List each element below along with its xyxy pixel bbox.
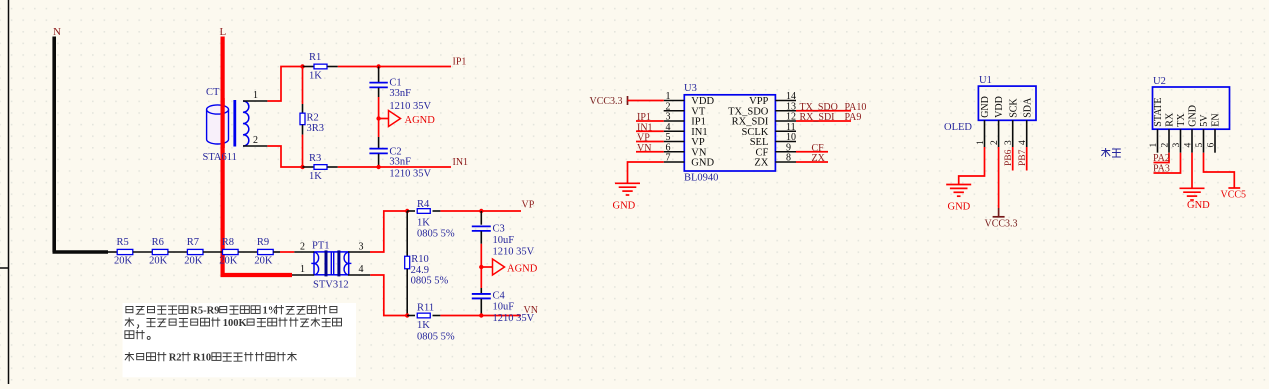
svg-text:5V: 5V: [1199, 114, 1210, 127]
svg-text:20K: 20K: [114, 256, 133, 267]
wire N to R5: [108, 251, 117, 253]
svg-text:TX: TX: [1176, 113, 1187, 127]
PT1 pin 2: [294, 242, 314, 253]
U2 pin 6: [1207, 129, 1217, 153]
resistor R6 20K: [149, 237, 168, 267]
U3 pin 10: [775, 132, 796, 143]
svg-text:R5: R5: [117, 237, 129, 248]
svg-text:SCK: SCK: [1008, 98, 1019, 118]
U3 pin 3: [664, 112, 685, 123]
note line 4: [125, 352, 297, 364]
label lanya (bluetooth): [1101, 148, 1120, 157]
transformer PT1 STV312: [311, 241, 351, 291]
U2 pin 4: [1184, 129, 1194, 153]
resistor R7 20K: [184, 237, 203, 267]
svg-text:ZX: ZX: [812, 153, 826, 164]
wire U2 pin5 to VCC5: [1204, 153, 1235, 188]
ground symbol GND (U3): [613, 183, 641, 211]
svg-text:1: 1: [253, 90, 258, 101]
PT1 pin 1: [292, 264, 314, 275]
svg-text:20K: 20K: [254, 256, 273, 267]
svg-text:3R3: 3R3: [307, 123, 325, 134]
resistor R4 1K: [407, 199, 455, 240]
IC U3 BL0940: [684, 83, 775, 183]
transformer CT STA611: [203, 87, 249, 163]
power port VCC5: [1221, 188, 1247, 201]
svg-text:GND: GND: [1187, 200, 1210, 211]
svg-text:AGND: AGND: [405, 115, 436, 126]
U3 pin 2: [664, 101, 685, 112]
svg-text:C3: C3: [493, 223, 505, 234]
svg-text:C4: C4: [493, 290, 506, 301]
wire R6 to R7: [168, 251, 188, 253]
wire R11 to VN: [440, 315, 521, 317]
svg-text:GND: GND: [980, 96, 991, 118]
wire C3 to AGND2: [480, 244, 482, 267]
svg-text:R3: R3: [309, 153, 321, 164]
capacitor C4 10uF: [472, 288, 535, 324]
svg-text:VCC5: VCC5: [1221, 190, 1247, 201]
svg-text:VP: VP: [522, 199, 535, 210]
svg-text:1: 1: [300, 264, 305, 275]
U3 pin 5: [664, 132, 685, 143]
svg-text:R8: R8: [222, 237, 234, 248]
svg-text:10uF: 10uF: [493, 235, 515, 246]
wire L over CT: [221, 98, 225, 148]
capacitor C1 33nF: [369, 67, 431, 112]
svg-text:R11: R11: [417, 303, 434, 314]
svg-text:PB6: PB6: [1004, 149, 1014, 166]
U3 pin 14: [775, 91, 796, 102]
PT1 pin 4: [348, 264, 370, 275]
svg-text:R2: R2: [169, 353, 182, 364]
svg-text:GND: GND: [1188, 105, 1199, 127]
junction node C4 bottom: [479, 313, 483, 317]
svg-text:BL0940: BL0940: [684, 172, 718, 183]
wire U3 pin13 TX_SDO: [796, 110, 851, 112]
U3 pin 4: [664, 122, 685, 133]
svg-text:0805 5%: 0805 5%: [417, 229, 455, 240]
wire R7 to R8: [203, 251, 223, 253]
CT pin 2: [243, 135, 267, 146]
svg-text:0805 5%: 0805 5%: [411, 276, 449, 287]
resistor R2 3R3: [300, 67, 324, 168]
svg-text:20K: 20K: [184, 256, 203, 267]
svg-text:ZX: ZX: [754, 158, 768, 169]
wire R8 to R9: [238, 251, 258, 253]
svg-text:VDD: VDD: [994, 96, 1005, 118]
svg-text:100K: 100K: [223, 318, 248, 329]
svg-text:C1: C1: [389, 78, 401, 89]
svg-text:1K: 1K: [417, 218, 430, 229]
junction node C1 top: [376, 64, 380, 68]
resistor R10 24.9: [405, 211, 449, 316]
wire U1 pin2 to VCC3.3: [998, 147, 1000, 208]
power port VCC3.3 (U3): [590, 96, 628, 107]
svg-text:GND: GND: [613, 200, 636, 211]
power symbol AGND2: [493, 259, 538, 275]
wire R4 to VP: [440, 210, 521, 212]
resistor R11 1K: [407, 303, 455, 343]
svg-text:20K: 20K: [149, 256, 168, 267]
svg-text:STV312: STV312: [313, 280, 349, 291]
svg-text:U1: U1: [979, 75, 992, 86]
wire R9 to PT1 pin2: [273, 251, 294, 253]
U3 pin 6: [664, 142, 685, 153]
wire AGND node to C2: [378, 119, 380, 138]
junction node AGND2: [479, 265, 483, 269]
wire U2 pin2 PA2: [1154, 153, 1170, 163]
U1 pin 4: [1018, 120, 1028, 147]
svg-text:EN: EN: [1211, 113, 1222, 126]
U1 pin 3: [1004, 120, 1014, 147]
svg-text:SDA: SDA: [1022, 97, 1033, 118]
wire U3 pin9 CF: [796, 151, 828, 153]
svg-text:PB7: PB7: [1018, 149, 1028, 166]
svg-text:PA3: PA3: [1153, 164, 1170, 175]
svg-text:0805 5%: 0805 5%: [417, 331, 455, 342]
note line 2: [125, 318, 342, 330]
svg-text:U3: U3: [684, 83, 697, 94]
wire AGND2 to C4: [480, 267, 482, 288]
wire VCC3.3 to U3 pin1: [628, 100, 664, 102]
ground symbol GND (U2): [1180, 188, 1211, 211]
svg-text:RX: RX: [1165, 112, 1176, 127]
svg-text:R5-R9: R5-R9: [190, 306, 219, 317]
wire U1 pin3 PB6: [1012, 147, 1014, 171]
svg-text:R1: R1: [309, 52, 321, 63]
capacitor C2 33nF: [369, 137, 431, 179]
svg-text:1K: 1K: [417, 320, 430, 331]
U3 pin 9: [775, 142, 796, 153]
wire U1 pin4 PB7: [1026, 147, 1028, 171]
wire CT pin2 to R3 node: [267, 146, 302, 167]
U3 pin 12: [775, 112, 796, 123]
U1 pin 1: [976, 120, 986, 147]
svg-text:GND: GND: [948, 202, 971, 213]
wire U2 pin3 PA3: [1154, 153, 1181, 173]
svg-text:4: 4: [359, 264, 364, 275]
resistor R8 20K: [219, 237, 238, 267]
svg-text:R10: R10: [411, 254, 429, 265]
U3 pin 13: [775, 101, 796, 112]
svg-text:R7: R7: [187, 237, 199, 248]
wire R1 to IP1: [338, 66, 451, 68]
net label VN (U3): [636, 143, 664, 154]
svg-text:R2: R2: [307, 113, 319, 124]
svg-text:OLED: OLED: [944, 122, 972, 133]
svg-text:1K: 1K: [309, 171, 322, 182]
junction node R3-R2: [300, 165, 304, 169]
junction node AGND1: [376, 116, 380, 120]
svg-text:PT1: PT1: [312, 241, 330, 252]
svg-text:RX_SDI: RX_SDI: [800, 112, 835, 123]
junction node R4-R10: [405, 209, 409, 213]
svg-text:2: 2: [253, 135, 258, 146]
svg-text:N: N: [53, 26, 61, 38]
wire CT pin1 to R1 node: [267, 67, 302, 102]
svg-text:STATE: STATE: [1153, 97, 1164, 126]
PT1 pin 3: [348, 242, 370, 253]
junction node R1-R2: [300, 64, 304, 68]
svg-text:R6: R6: [152, 237, 164, 248]
svg-text:R10: R10: [193, 353, 211, 364]
note line 3: [125, 330, 150, 339]
wire N (thick black): [53, 37, 109, 253]
capacitor C3 10uF: [472, 211, 535, 258]
U1 pin 2: [990, 120, 1000, 147]
wire R3 to IN1: [338, 166, 451, 168]
U2 pin 1: [1149, 129, 1159, 153]
svg-text:3: 3: [359, 242, 364, 253]
resistor R5 20K: [114, 237, 133, 267]
sheet border: [0, 0, 9, 384]
wire L (thick red): [221, 37, 293, 276]
net label IN1 (U3): [636, 123, 664, 134]
resistor R3 1K: [303, 153, 338, 182]
wire C1 to AGND node: [378, 97, 380, 119]
resistor R1 1K: [303, 52, 338, 82]
net label IP1 (U3): [636, 112, 664, 123]
wire U3 pin8 ZX: [796, 161, 828, 163]
wire U3 pin12 RX_SDI: [796, 120, 851, 122]
net label VP (U3): [636, 133, 664, 144]
power symbol AGND1: [389, 111, 436, 127]
svg-text:VCC3.3: VCC3.3: [985, 218, 1018, 229]
svg-text:33nF: 33nF: [389, 156, 411, 167]
wire PT1 pin3 to R4 row: [370, 211, 407, 252]
connector U2 bluetooth: [1153, 76, 1230, 129]
svg-text:U2: U2: [1153, 76, 1166, 87]
connector U1 OLED: [944, 75, 1036, 133]
wire U1 pin1 to GND: [959, 147, 985, 185]
junction node R11-R10: [405, 313, 409, 317]
resistor R9 20K: [254, 237, 273, 267]
CT pin 1: [243, 90, 267, 101]
svg-text:20K: 20K: [219, 256, 238, 267]
U3 pin 8: [775, 153, 796, 164]
junction node C2 bottom: [376, 165, 380, 169]
U2 pin 5: [1195, 129, 1205, 153]
wire AGND2 stub: [481, 266, 492, 268]
junction node C3 top: [479, 209, 483, 213]
U2 pin 2: [1161, 129, 1171, 153]
wire PT1 pin4 to R11 row: [370, 275, 407, 316]
wire U2 pin4 to GND: [1191, 153, 1193, 189]
ground symbol GND (U1): [946, 185, 971, 213]
svg-text:STA611: STA611: [203, 152, 237, 163]
U3 pin 11: [775, 122, 796, 133]
svg-text:33nF: 33nF: [389, 88, 411, 99]
svg-text:R9: R9: [257, 237, 269, 248]
svg-text:1K: 1K: [309, 71, 322, 82]
svg-text:AGND: AGND: [507, 263, 538, 274]
svg-text:VCC3.3: VCC3.3: [590, 96, 623, 107]
svg-text:PA9: PA9: [845, 112, 862, 123]
svg-text:IN1: IN1: [453, 157, 469, 168]
power port VCC3.3 (U1): [985, 208, 1018, 229]
svg-text:24.9: 24.9: [411, 265, 429, 276]
svg-text:1210 35V: 1210 35V: [389, 101, 431, 112]
wire U3 pin7 to GND: [628, 162, 664, 183]
svg-text:L: L: [220, 26, 227, 38]
svg-text:CT: CT: [206, 87, 220, 98]
svg-text:10uF: 10uF: [493, 301, 515, 312]
svg-text:1210 35V: 1210 35V: [493, 313, 535, 324]
svg-text:IP1: IP1: [453, 57, 467, 68]
wire AGND1 stub: [379, 118, 389, 120]
text frame (notes): [123, 303, 356, 377]
wire R5 to R6: [133, 251, 153, 253]
U3 pin 7: [664, 153, 685, 164]
svg-text:1210 35V: 1210 35V: [389, 168, 431, 179]
svg-text:PA2: PA2: [1153, 153, 1170, 164]
svg-text:GND: GND: [691, 158, 714, 169]
svg-text:1210 35V: 1210 35V: [493, 247, 535, 258]
U3 pin 1: [664, 91, 685, 102]
U2 pin 3: [1172, 129, 1182, 153]
note line 1: [126, 305, 337, 317]
svg-text:2: 2: [300, 242, 305, 253]
